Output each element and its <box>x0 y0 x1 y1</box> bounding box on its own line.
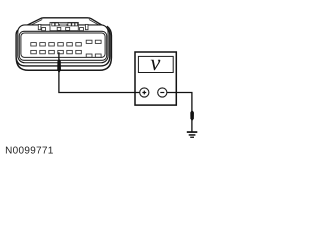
pin cavity row2 col3 <box>49 50 55 53</box>
pin cavity right top col2 <box>95 40 101 43</box>
shroud outer rect <box>19 31 106 60</box>
pin cavity row1 col6 <box>76 43 82 46</box>
center latch inner rect 2 <box>55 23 58 26</box>
shroud inner rect <box>21 33 105 57</box>
center latch wide low rect <box>60 24 67 26</box>
pin cavity row1 col1 <box>31 43 37 46</box>
pin cavity row2 col4 (probed pin) <box>58 50 64 53</box>
ground symbol bar 3 <box>190 137 194 138</box>
voltmeter U1 box <box>135 52 176 105</box>
latch tab right outer <box>85 24 88 29</box>
wire from negative terminal to ground <box>167 93 192 132</box>
pin cavity row1 col3 <box>49 43 55 46</box>
center latch inner rect 3 <box>68 23 71 26</box>
voltmeter display window <box>138 56 173 72</box>
pin cavity right bottom col2 <box>95 54 101 57</box>
latch cup right <box>80 28 84 31</box>
wire from probed pin to voltmeter positive terminal <box>59 52 141 92</box>
center latch assembly outer <box>50 22 78 30</box>
center latch inner rect 5 <box>75 23 78 26</box>
pin cavity right top col1 <box>86 40 92 43</box>
hump inner parallel line left <box>23 20 43 30</box>
plus sign <box>142 91 146 95</box>
ground symbol bar 2 <box>189 134 196 136</box>
connector C1 outer body outline <box>16 18 110 66</box>
connector rear shell outline <box>16 26 111 70</box>
pin cavity row1 col2 <box>40 43 46 46</box>
figure label N0099771 <box>6 147 53 154</box>
ground symbol bar 1 <box>187 131 198 133</box>
pin cavity row1 col5 <box>67 43 73 46</box>
pin cavity right bottom col1 <box>86 54 92 57</box>
voltmeter V label <box>151 60 161 70</box>
voltmeter positive terminal <box>140 88 149 97</box>
pin cavity row2 col1 <box>31 50 37 53</box>
pin cavity row2 col5 <box>67 50 73 53</box>
center latch inner rect 4 <box>72 23 75 26</box>
ground probe (tip down) <box>190 111 194 121</box>
pin cavity row2 col6 <box>76 50 82 53</box>
center latch bottom rect left <box>57 27 61 30</box>
minus sign <box>160 92 164 94</box>
pin cavity row1 col4 <box>58 43 64 46</box>
center latch bottom rect right <box>66 27 70 30</box>
latch tab left outer <box>38 24 41 29</box>
latch cup left <box>42 28 46 31</box>
pin cavity row2 col2 <box>40 50 46 53</box>
connector flange (second outline) <box>18 25 108 63</box>
test probe at connector pin (tip up) <box>57 59 61 74</box>
voltmeter negative terminal <box>158 88 167 97</box>
center latch inner rect 1 <box>52 23 55 26</box>
hump inner parallel line right <box>89 20 106 29</box>
